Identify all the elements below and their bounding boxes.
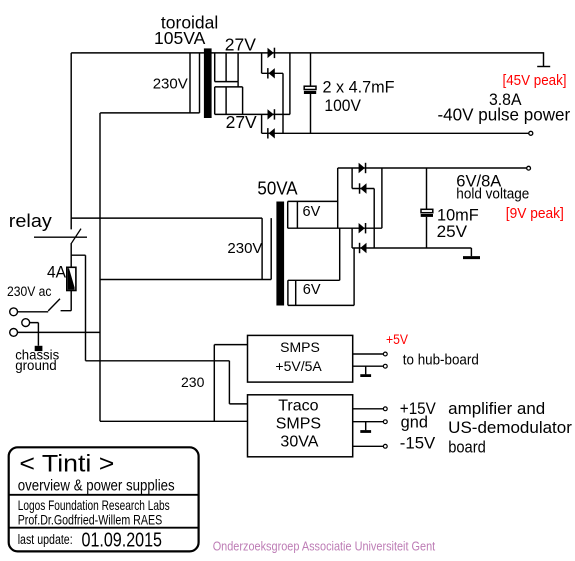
wire relay to fuse bbox=[70, 244, 72, 267]
svg-text:+5V/5A: +5V/5A bbox=[275, 358, 322, 374]
svg-text:last update:: last update: bbox=[18, 532, 73, 547]
terminal T-bar 45V output bbox=[537, 66, 550, 68]
svg-text:board: board bbox=[448, 438, 486, 456]
capacitor C2 plates bbox=[421, 209, 433, 212]
wire fuse to switch contact bbox=[61, 291, 72, 311]
svg-text:relay: relay bbox=[9, 211, 52, 231]
svg-text:Logos Foundation Research Labs: Logos Foundation Research Labs bbox=[18, 498, 170, 513]
wire U1 output 0V bbox=[353, 365, 384, 367]
svg-text:30VA: 30VA bbox=[280, 434, 318, 451]
svg-text:US-demodulator: US-demodulator bbox=[448, 419, 572, 437]
wire earth terminal to chassis bbox=[30, 323, 39, 346]
svg-text:-15V: -15V bbox=[400, 435, 436, 453]
wire U2 output -15V bbox=[353, 445, 384, 447]
title block divider 1 bbox=[9, 494, 199, 496]
wire branch to SMPS bus L bbox=[71, 255, 247, 404]
svg-text:2 x 4.7mF: 2 x 4.7mF bbox=[323, 77, 395, 96]
svg-text:100V: 100V bbox=[324, 96, 361, 115]
diode D8 bbox=[359, 243, 361, 253]
wire terminal L to switch bbox=[18, 311, 49, 313]
wire 50VA primary bottom bbox=[100, 279, 271, 281]
svg-text:[9V peak]: [9V peak] bbox=[506, 205, 564, 222]
wire D2 row down to bottom rail bbox=[282, 73, 284, 133]
svg-text:Traco: Traco bbox=[278, 398, 318, 415]
svg-text:230: 230 bbox=[181, 374, 205, 390]
wire U2 output +15V bbox=[353, 408, 384, 410]
wire D3 row winding lower to riser bbox=[215, 113, 290, 115]
wire center tap TR2 bbox=[339, 228, 341, 280]
terminal circle U1 0V bbox=[383, 364, 387, 368]
diode D1 bbox=[268, 48, 274, 58]
switch S1 arm bbox=[48, 299, 60, 311]
diode D7 bbox=[359, 223, 365, 233]
terminal circle earth bbox=[22, 319, 30, 327]
svg-text:to hub-board: to hub-board bbox=[403, 353, 479, 369]
terminal circle 6V output bbox=[527, 166, 531, 170]
svg-text:overview & power supplies: overview & power supplies bbox=[18, 478, 175, 495]
svg-text:27V: 27V bbox=[225, 35, 256, 55]
capacitor C1 lead top bbox=[310, 53, 312, 87]
transformer TR2 primary right edge bbox=[262, 218, 271, 279]
svg-text:4A: 4A bbox=[47, 263, 66, 281]
terminal circle N bbox=[10, 329, 18, 337]
wire D6 row down to D8 row bbox=[373, 189, 375, 249]
capacitor C1 lead bottom bbox=[310, 94, 312, 133]
terminal circle +5V bbox=[383, 352, 387, 356]
svg-text:50VA: 50VA bbox=[257, 179, 297, 199]
svg-text:6V: 6V bbox=[303, 282, 321, 298]
wire riser D7 cathode to top rail bbox=[381, 168, 383, 228]
wire bus N riser to SMPS1 bbox=[214, 345, 247, 422]
svg-text:230V: 230V bbox=[153, 76, 188, 93]
transformer TR1 core bar bbox=[204, 48, 212, 118]
diode D6 bbox=[359, 183, 361, 193]
svg-text:01.09.2015: 01.09.2015 bbox=[82, 528, 163, 551]
capacitor C2 lead bottom bbox=[426, 217, 428, 248]
relay K1 actuator line bbox=[34, 236, 87, 238]
wire bus N to SMPS bbox=[100, 420, 248, 422]
diode D3 bbox=[268, 109, 274, 119]
wire riser winding to top rail bbox=[337, 168, 339, 228]
wire center tap step bbox=[215, 82, 243, 115]
capacitor C1 plates bbox=[304, 86, 316, 89]
wire U1 output +5V bbox=[353, 353, 384, 355]
svg-text:[45V peak]: [45V peak] bbox=[503, 72, 567, 89]
ground bar 6V rail bbox=[463, 256, 480, 259]
svg-text:230V ac: 230V ac bbox=[7, 284, 52, 299]
wire riser lower winding to D8 row bbox=[353, 248, 355, 305]
svg-text:SMPS: SMPS bbox=[276, 416, 321, 433]
diode D4 bbox=[267, 128, 269, 138]
wire D2 row bbox=[262, 72, 283, 74]
diode D2 bbox=[267, 68, 269, 78]
transformer TR1 primary 230V box bbox=[100, 53, 199, 113]
title block frame bbox=[9, 447, 199, 551]
chassis ground symbol bbox=[35, 346, 43, 351]
title block divider 2 bbox=[9, 527, 199, 529]
svg-text:gnd: gnd bbox=[401, 414, 428, 432]
transformer TR1 secondary 27V lower winding bbox=[215, 87, 226, 115]
svg-text:+5V: +5V bbox=[386, 332, 408, 347]
fuse F1 wedge bbox=[68, 268, 75, 289]
wire terminal N to bus bbox=[18, 331, 100, 333]
transformer TR2 core bar bbox=[276, 202, 284, 306]
svg-text:ground: ground bbox=[15, 357, 57, 373]
diode D5 bbox=[359, 163, 365, 173]
wire mains N vertical bbox=[99, 113, 101, 421]
relay K1 contact slash bbox=[71, 229, 81, 245]
terminal circle gnd bbox=[383, 420, 387, 424]
wire D7 row winding bottom bbox=[288, 227, 382, 229]
wire top rail 6V output bbox=[338, 167, 527, 169]
ground stem 6V rail bbox=[470, 248, 472, 256]
wire 50VA primary top bbox=[71, 217, 262, 219]
terminal circle L bbox=[10, 308, 18, 316]
wire tie D7 row to D8 row bbox=[351, 228, 353, 248]
wire mains L down to relay bbox=[70, 53, 72, 230]
svg-text:Onderzoeksgroep Associatie Uni: Onderzoeksgroep Associatie Universiteit … bbox=[213, 539, 436, 554]
wire D8 row bottom rail bbox=[352, 247, 471, 249]
svg-text:230V: 230V bbox=[227, 240, 262, 257]
wire tie top rail to D2 row bbox=[261, 53, 263, 73]
ground stem U2 bbox=[365, 422, 367, 431]
terminal circle -40V output bbox=[529, 131, 533, 135]
svg-text:6V: 6V bbox=[303, 204, 321, 220]
svg-text:hold voltage: hold voltage bbox=[456, 187, 529, 203]
transformer TR2 secondary 6V upper winding bbox=[288, 201, 338, 228]
svg-text:Prof.Dr.Godfried-Willem RAES: Prof.Dr.Godfried-Willem RAES bbox=[18, 512, 163, 527]
svg-text:-40V pulse power: -40V pulse power bbox=[438, 105, 571, 125]
ground stem U1 bbox=[365, 366, 367, 374]
svg-text:25V: 25V bbox=[437, 222, 468, 241]
ground bar U1 bbox=[360, 374, 371, 377]
svg-text:< Tinti >: < Tinti > bbox=[19, 451, 114, 478]
terminal circle +15V bbox=[383, 407, 387, 411]
svg-text:SMPS: SMPS bbox=[280, 339, 320, 355]
wire tie top rail to D6 row bbox=[351, 168, 353, 189]
wire D6 row bbox=[352, 188, 374, 190]
wire riser D3 cathode to top rail bbox=[289, 53, 291, 115]
ground bar U2 bbox=[360, 430, 371, 433]
wire U2 output gnd bbox=[353, 421, 384, 423]
fuse F1 4A body bbox=[67, 267, 76, 290]
svg-text:amplifier and: amplifier and bbox=[448, 400, 545, 418]
capacitor C2 lead top bbox=[426, 168, 428, 210]
SMPS U1 box bbox=[248, 335, 353, 382]
transformer TR2 secondary 6V lower winding bbox=[288, 280, 354, 305]
transformer TR1 secondary 27V upper winding bbox=[215, 53, 238, 82]
SMPS U2 box bbox=[248, 395, 353, 457]
terminal circle -15V bbox=[383, 444, 387, 448]
wire top rail +40V bbox=[71, 53, 543, 67]
wire tie D3 row to D4 row bbox=[261, 114, 263, 133]
wire bottom rail -40V bbox=[262, 132, 529, 134]
svg-text:105VA: 105VA bbox=[154, 28, 206, 48]
